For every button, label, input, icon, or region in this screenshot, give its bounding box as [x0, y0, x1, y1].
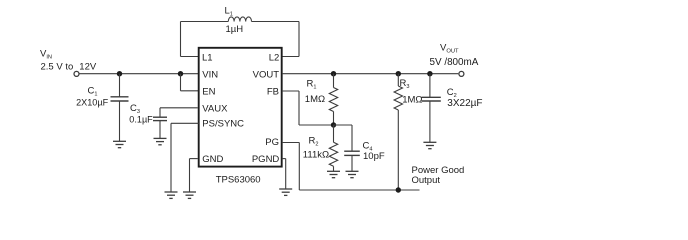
- capacitor C3 VAUX: [153, 108, 198, 139]
- label R1 value: [305, 78, 325, 105]
- ground under C2: [423, 142, 436, 148]
- svg-text:111kΩ: 111kΩ: [303, 149, 329, 160]
- label C3 value: [129, 103, 153, 124]
- label C1 value: [76, 86, 108, 108]
- svg-text:1µH: 1µH: [226, 24, 244, 35]
- svg-text:1MΩ: 1MΩ: [402, 94, 422, 105]
- svg-text:FB: FB: [267, 87, 279, 98]
- node Vout output terminal: [459, 71, 464, 76]
- svg-text:R2: R2: [309, 135, 319, 147]
- node junction R1 top: [331, 71, 336, 76]
- svg-text:PG: PG: [265, 137, 279, 148]
- svg-text:10pF: 10pF: [363, 151, 385, 162]
- svg-text:1MΩ: 1MΩ: [305, 94, 325, 105]
- wire PG output: [282, 143, 420, 191]
- resistor R3: [394, 74, 402, 190]
- node junction C2 top: [427, 71, 432, 76]
- node junction PG/R3: [396, 187, 401, 192]
- wire input rail: [80, 73, 199, 75]
- svg-text:L1: L1: [225, 5, 233, 17]
- label Vout: [430, 42, 479, 67]
- wire PGND to ground: [282, 159, 286, 189]
- resistor R1: [329, 74, 337, 125]
- node junction C1: [117, 71, 122, 76]
- ground under GND pin: [183, 192, 196, 198]
- ground under C4: [346, 171, 359, 177]
- svg-text:VOUT: VOUT: [253, 69, 280, 80]
- resistor R2: [329, 125, 337, 171]
- capacitor C1: [111, 74, 129, 142]
- ground under R2: [327, 171, 340, 177]
- svg-text:PGND: PGND: [252, 154, 280, 165]
- svg-text:3X22µF: 3X22µF: [447, 98, 482, 109]
- svg-text:TPS63060: TPS63060: [216, 174, 261, 185]
- svg-text:VAUX: VAUX: [202, 104, 228, 115]
- node junction R3 top: [396, 71, 401, 76]
- svg-text:L2: L2: [269, 52, 280, 63]
- svg-text:PS/SYNC: PS/SYNC: [202, 118, 244, 129]
- label R2 value: [303, 135, 329, 160]
- ground under PS/SYNC: [165, 192, 178, 198]
- svg-text:C1: C1: [88, 86, 98, 98]
- svg-text:EN: EN: [202, 87, 215, 98]
- wire PS/SYNC to ground: [171, 123, 199, 192]
- wire L2-pin loop right: [252, 22, 300, 57]
- wire output rail VOUT: [282, 73, 458, 75]
- label Power Good Output: [412, 165, 465, 186]
- wire FB to divider: [282, 91, 334, 125]
- node Vin input terminal: [74, 71, 79, 76]
- svg-text:2X10µF: 2X10µF: [76, 98, 108, 108]
- svg-text:C3: C3: [130, 103, 140, 115]
- ground under C1: [113, 141, 126, 147]
- ground under PGND: [279, 189, 292, 195]
- svg-text:0.1µF: 0.1µF: [129, 114, 153, 124]
- svg-text:R3: R3: [400, 78, 410, 90]
- wire GND pin to ground: [190, 159, 198, 192]
- label C4 value: [363, 141, 385, 163]
- svg-text:GND: GND: [202, 154, 223, 165]
- svg-text:R1: R1: [307, 78, 317, 90]
- ground under C3: [154, 138, 167, 144]
- svg-text:Output: Output: [412, 175, 441, 186]
- svg-text:VIN: VIN: [202, 69, 218, 80]
- label L1 value: [225, 5, 244, 35]
- svg-text:2.5 V to: 2.5 V to: [41, 61, 74, 72]
- node junction FB: [331, 122, 336, 127]
- svg-text:VOUT: VOUT: [440, 42, 459, 54]
- label C2 value: [447, 87, 483, 109]
- capacitor C4: [344, 125, 360, 171]
- svg-text:5V /800mA: 5V /800mA: [430, 57, 479, 68]
- inductor L1: [228, 17, 251, 22]
- capacitor C2 output: [422, 74, 441, 143]
- op-amp U1 TPS63060 IC body: [199, 48, 282, 167]
- label Vin: [40, 48, 97, 72]
- wire L1-pin loop left: [181, 22, 229, 57]
- wire FB node to C4: [334, 124, 353, 126]
- label R3 value: [400, 78, 423, 105]
- svg-text:12V: 12V: [79, 61, 97, 72]
- wire EN tie to Vin: [181, 74, 199, 91]
- svg-text:L1: L1: [202, 52, 213, 63]
- svg-text:VIN: VIN: [40, 48, 52, 60]
- node junction EN: [178, 71, 183, 76]
